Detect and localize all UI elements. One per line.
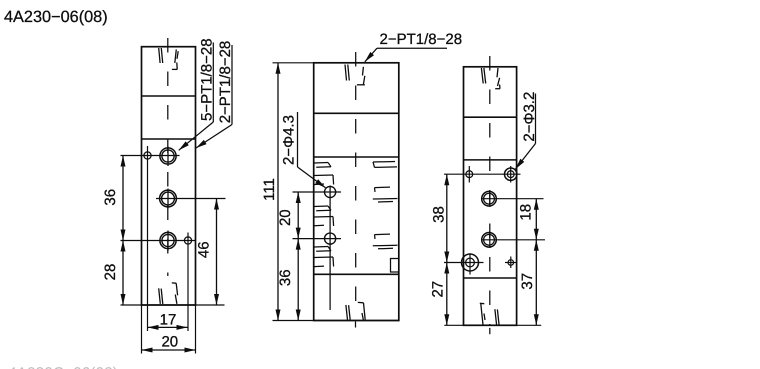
svg-text:2−PT1/8−28: 2−PT1/8−28 [217, 41, 234, 124]
svg-text:20: 20 [277, 209, 294, 226]
svg-text:2−PT1/8−28: 2−PT1/8−28 [380, 31, 463, 48]
svg-text:4A230C−06(08): 4A230C−06(08) [8, 365, 118, 369]
svg-text:17: 17 [160, 312, 177, 329]
svg-text:18: 18 [517, 204, 534, 221]
svg-text:38: 38 [431, 206, 448, 223]
svg-text:36: 36 [102, 189, 119, 206]
svg-text:111: 111 [261, 178, 278, 201]
svg-text:4A230−06(08): 4A230−06(08) [4, 8, 108, 26]
svg-text:2−Φ4.3: 2−Φ4.3 [280, 115, 297, 165]
svg-text:20: 20 [161, 334, 178, 351]
svg-text:27: 27 [430, 281, 447, 298]
svg-text:46: 46 [196, 241, 213, 258]
svg-text:28: 28 [102, 264, 119, 281]
svg-text:36: 36 [277, 269, 294, 286]
svg-text:2−Φ3.2: 2−Φ3.2 [521, 92, 538, 142]
svg-text:37: 37 [519, 273, 536, 290]
svg-text:5−PT1/8−28: 5−PT1/8−28 [198, 38, 215, 121]
